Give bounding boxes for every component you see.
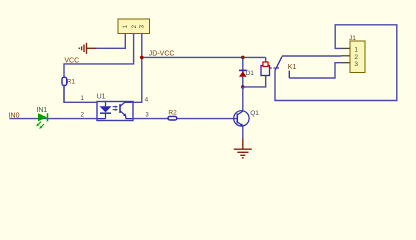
ground (earth) symbol below Q1 bbox=[234, 139, 252, 158]
junction node at D1 bottom / Q1 collector bbox=[241, 85, 245, 89]
optocoupler U1 bbox=[97, 102, 133, 121]
svg-text:J1: J1 bbox=[349, 35, 356, 42]
connector P1 (3-pin header, top) bbox=[118, 19, 150, 34]
J1 pin 3 stub bbox=[341, 62, 350, 64]
svg-text:U1: U1 bbox=[97, 93, 106, 100]
relay K1 switch arm bbox=[275, 57, 282, 71]
wire R1 bottom to U1 pin 1 bbox=[64, 86, 97, 103]
svg-text:R2: R2 bbox=[168, 110, 177, 117]
wire Q1 emitter to ground bbox=[242, 126, 244, 139]
relay K1 actuation dashed line bbox=[270, 67, 280, 69]
svg-text:R1: R1 bbox=[67, 78, 76, 85]
junction node at P1 pin3 / JD-VCC bbox=[140, 56, 144, 60]
svg-text:IN0: IN0 bbox=[9, 113, 20, 120]
connector J1 bbox=[341, 41, 365, 73]
J1 pin 1 stub bbox=[341, 47, 350, 49]
wire relay top contact to J1 pin2 bbox=[282, 55, 341, 57]
wire JD-VCC to relay coil top bbox=[265, 57, 267, 66]
diode D1 bbox=[239, 57, 247, 87]
svg-text:Q1: Q1 bbox=[250, 110, 259, 117]
svg-text:3: 3 bbox=[354, 61, 358, 68]
transistor Q1 bbox=[234, 87, 249, 126]
svg-text:K1: K1 bbox=[288, 64, 297, 71]
resistor R1 bbox=[62, 77, 67, 85]
wire relay lower contact to J1 pin3 bbox=[289, 63, 341, 78]
svg-text:IN1: IN1 bbox=[36, 107, 47, 114]
resistor R2 bbox=[168, 116, 177, 120]
svg-text:2: 2 bbox=[354, 54, 358, 61]
junction node at JD-VCC / D1 bbox=[241, 56, 245, 60]
wire P1 pin3 to JD-VCC node bbox=[141, 34, 143, 58]
svg-text:D1: D1 bbox=[246, 70, 255, 77]
wire coil bottom loop bbox=[243, 76, 266, 87]
svg-text:1: 1 bbox=[354, 46, 358, 53]
wire JD-VCC rail bbox=[142, 56, 266, 58]
LED IN1 bbox=[36, 113, 47, 129]
wire relay common to J1 pin1 loop bbox=[275, 25, 397, 101]
J1 pin 2 stub bbox=[341, 55, 350, 57]
wire VCC rail bbox=[64, 34, 134, 78]
relay K1 lower contact hook bbox=[288, 71, 290, 79]
wire U1 pin3 to Q1 base bbox=[133, 118, 237, 120]
wire VCC horizontal bbox=[63, 86, 65, 103]
wire IN0 to U1 pin 2 bbox=[9, 118, 97, 120]
relay K1 coil bbox=[261, 62, 270, 76]
wire P1 pin1 to ground bbox=[96, 34, 125, 49]
wire JD-VCC down to U1 pin 4 bbox=[133, 57, 142, 102]
ground (earth) symbol top-left bbox=[79, 43, 96, 54]
svg-text:JD-VCC: JD-VCC bbox=[149, 51, 175, 58]
